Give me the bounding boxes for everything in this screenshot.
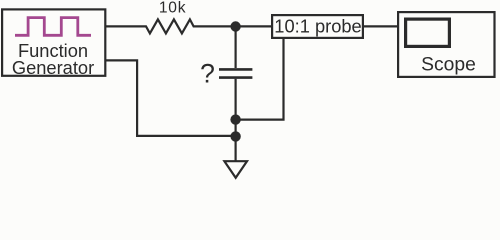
- svg-text:?: ?: [200, 58, 215, 88]
- svg-text:Scope: Scope: [421, 55, 476, 76]
- svg-text:Generator: Generator: [12, 57, 94, 78]
- svg-text:10k: 10k: [159, 0, 187, 17]
- svg-text:10:1 probe: 10:1 probe: [274, 15, 361, 36]
